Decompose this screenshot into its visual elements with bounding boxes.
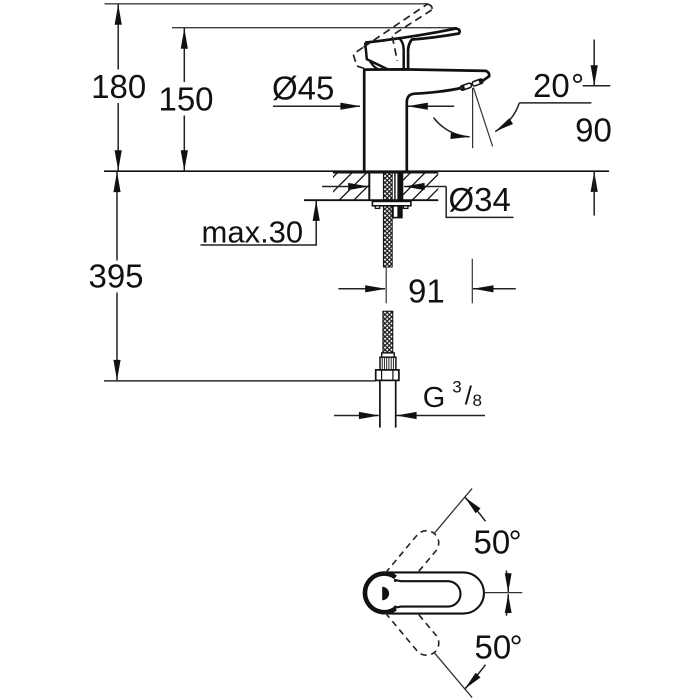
dimension 150 vertical line bbox=[183, 28, 185, 82]
horseshoe washer under counter bbox=[372, 201, 411, 205]
dimension 90 bbox=[593, 40, 595, 86]
mounting nut on stud bbox=[393, 206, 402, 218]
dimension 395 vertical line bbox=[116, 172, 118, 261]
50° dimension arc lower (centerline end) bbox=[506, 594, 508, 616]
dimension Ø45 bbox=[273, 105, 360, 107]
20° stream direction line bbox=[473, 88, 492, 147]
svg-text:395: 395 bbox=[88, 258, 143, 295]
aerator (mousseur) at spout tip bbox=[460, 78, 484, 90]
centerline right bbox=[484, 592, 522, 594]
dimension Ø34 bbox=[322, 186, 368, 188]
svg-text:180: 180 bbox=[91, 68, 146, 105]
hose guide line bbox=[394, 172, 396, 200]
svg-text:50: 50 bbox=[475, 629, 512, 666]
50° line upper bbox=[434, 488, 472, 533]
dashed handle rotated up 50° bbox=[385, 531, 438, 573]
braided hose lower segment bbox=[383, 311, 393, 353]
svg-text:8: 8 bbox=[473, 391, 482, 410]
handle back edge and base bbox=[365, 43, 387, 69]
bottom reference line for 395 bbox=[104, 380, 376, 382]
hose centerline bbox=[385, 267, 387, 304]
top reference line (raised-handle height 180) bbox=[105, 3, 429, 5]
counter top line bbox=[104, 170, 609, 172]
flexible hose (braided) through shank bbox=[383, 173, 392, 267]
top view: handle inner stadium bbox=[394, 580, 460, 608]
top view: logo mark bbox=[382, 587, 389, 600]
lever handle raised position (dashed) bbox=[363, 4, 427, 47]
91 right reference line bbox=[471, 259, 473, 304]
svg-text:91: 91 bbox=[408, 273, 445, 310]
svg-text:150: 150 bbox=[158, 81, 213, 118]
svg-text:Ø45: Ø45 bbox=[272, 69, 334, 106]
top view: pivot dots bbox=[394, 579, 397, 582]
svg-text:°: ° bbox=[571, 67, 584, 104]
50° dimension arc upper (line end) bbox=[465, 497, 486, 521]
20° dimension arc right bbox=[495, 103, 519, 131]
svg-text:50: 50 bbox=[474, 524, 511, 561]
dimension G3/8 bbox=[334, 415, 379, 417]
20° leader line bbox=[519, 102, 591, 104]
svg-text:°: ° bbox=[510, 629, 523, 666]
connection tube walls bbox=[379, 380, 381, 427]
counter bottom line bbox=[304, 199, 438, 201]
hose connection nut G3/8 bbox=[376, 370, 399, 381]
svg-text:90: 90 bbox=[575, 111, 612, 148]
50° dimension arc upper (centerline end) bbox=[506, 571, 508, 593]
top view: handle outer stadium bbox=[388, 572, 484, 613]
20° dimension arc left bbox=[434, 118, 470, 137]
reference line (handle height 150) bbox=[172, 27, 457, 29]
svg-text:Ø34: Ø34 bbox=[449, 181, 511, 218]
50° dimension arc lower (line end) bbox=[465, 665, 486, 689]
svg-text:3: 3 bbox=[452, 377, 461, 396]
lever neck left edge bbox=[400, 39, 404, 69]
leader to Ø34 label bbox=[446, 187, 513, 218]
spout underside and body right wall bbox=[407, 88, 461, 171]
dimension 91 bbox=[338, 288, 385, 290]
hatching of counter section bbox=[310, 171, 470, 200]
white hole in counter for shank bbox=[370, 170, 404, 201]
svg-text:G: G bbox=[423, 382, 446, 414]
mounting stud (solid section) bbox=[397, 172, 403, 200]
threaded shank left wall bbox=[368, 172, 370, 200]
faucet body left wall bbox=[363, 70, 366, 171]
top view: faucet body circle (thick) bbox=[365, 574, 396, 613]
svg-text:20: 20 bbox=[533, 67, 570, 104]
hose crimp ferrule bbox=[382, 353, 395, 357]
faucet body top and spout top edge bbox=[363, 69, 489, 81]
dashed handle rotated down 50° bbox=[385, 613, 438, 655]
lever handle, closed position bbox=[365, 29, 459, 69]
50° line lower bbox=[434, 653, 472, 698]
20° vertical reference line bbox=[472, 88, 474, 148]
svg-text:°: ° bbox=[509, 524, 522, 561]
leader max.30 bbox=[201, 201, 317, 245]
svg-text:max.30: max.30 bbox=[202, 215, 304, 250]
dimension 180 vertical line bbox=[117, 4, 119, 70]
cartridge dome arc bbox=[370, 62, 378, 70]
